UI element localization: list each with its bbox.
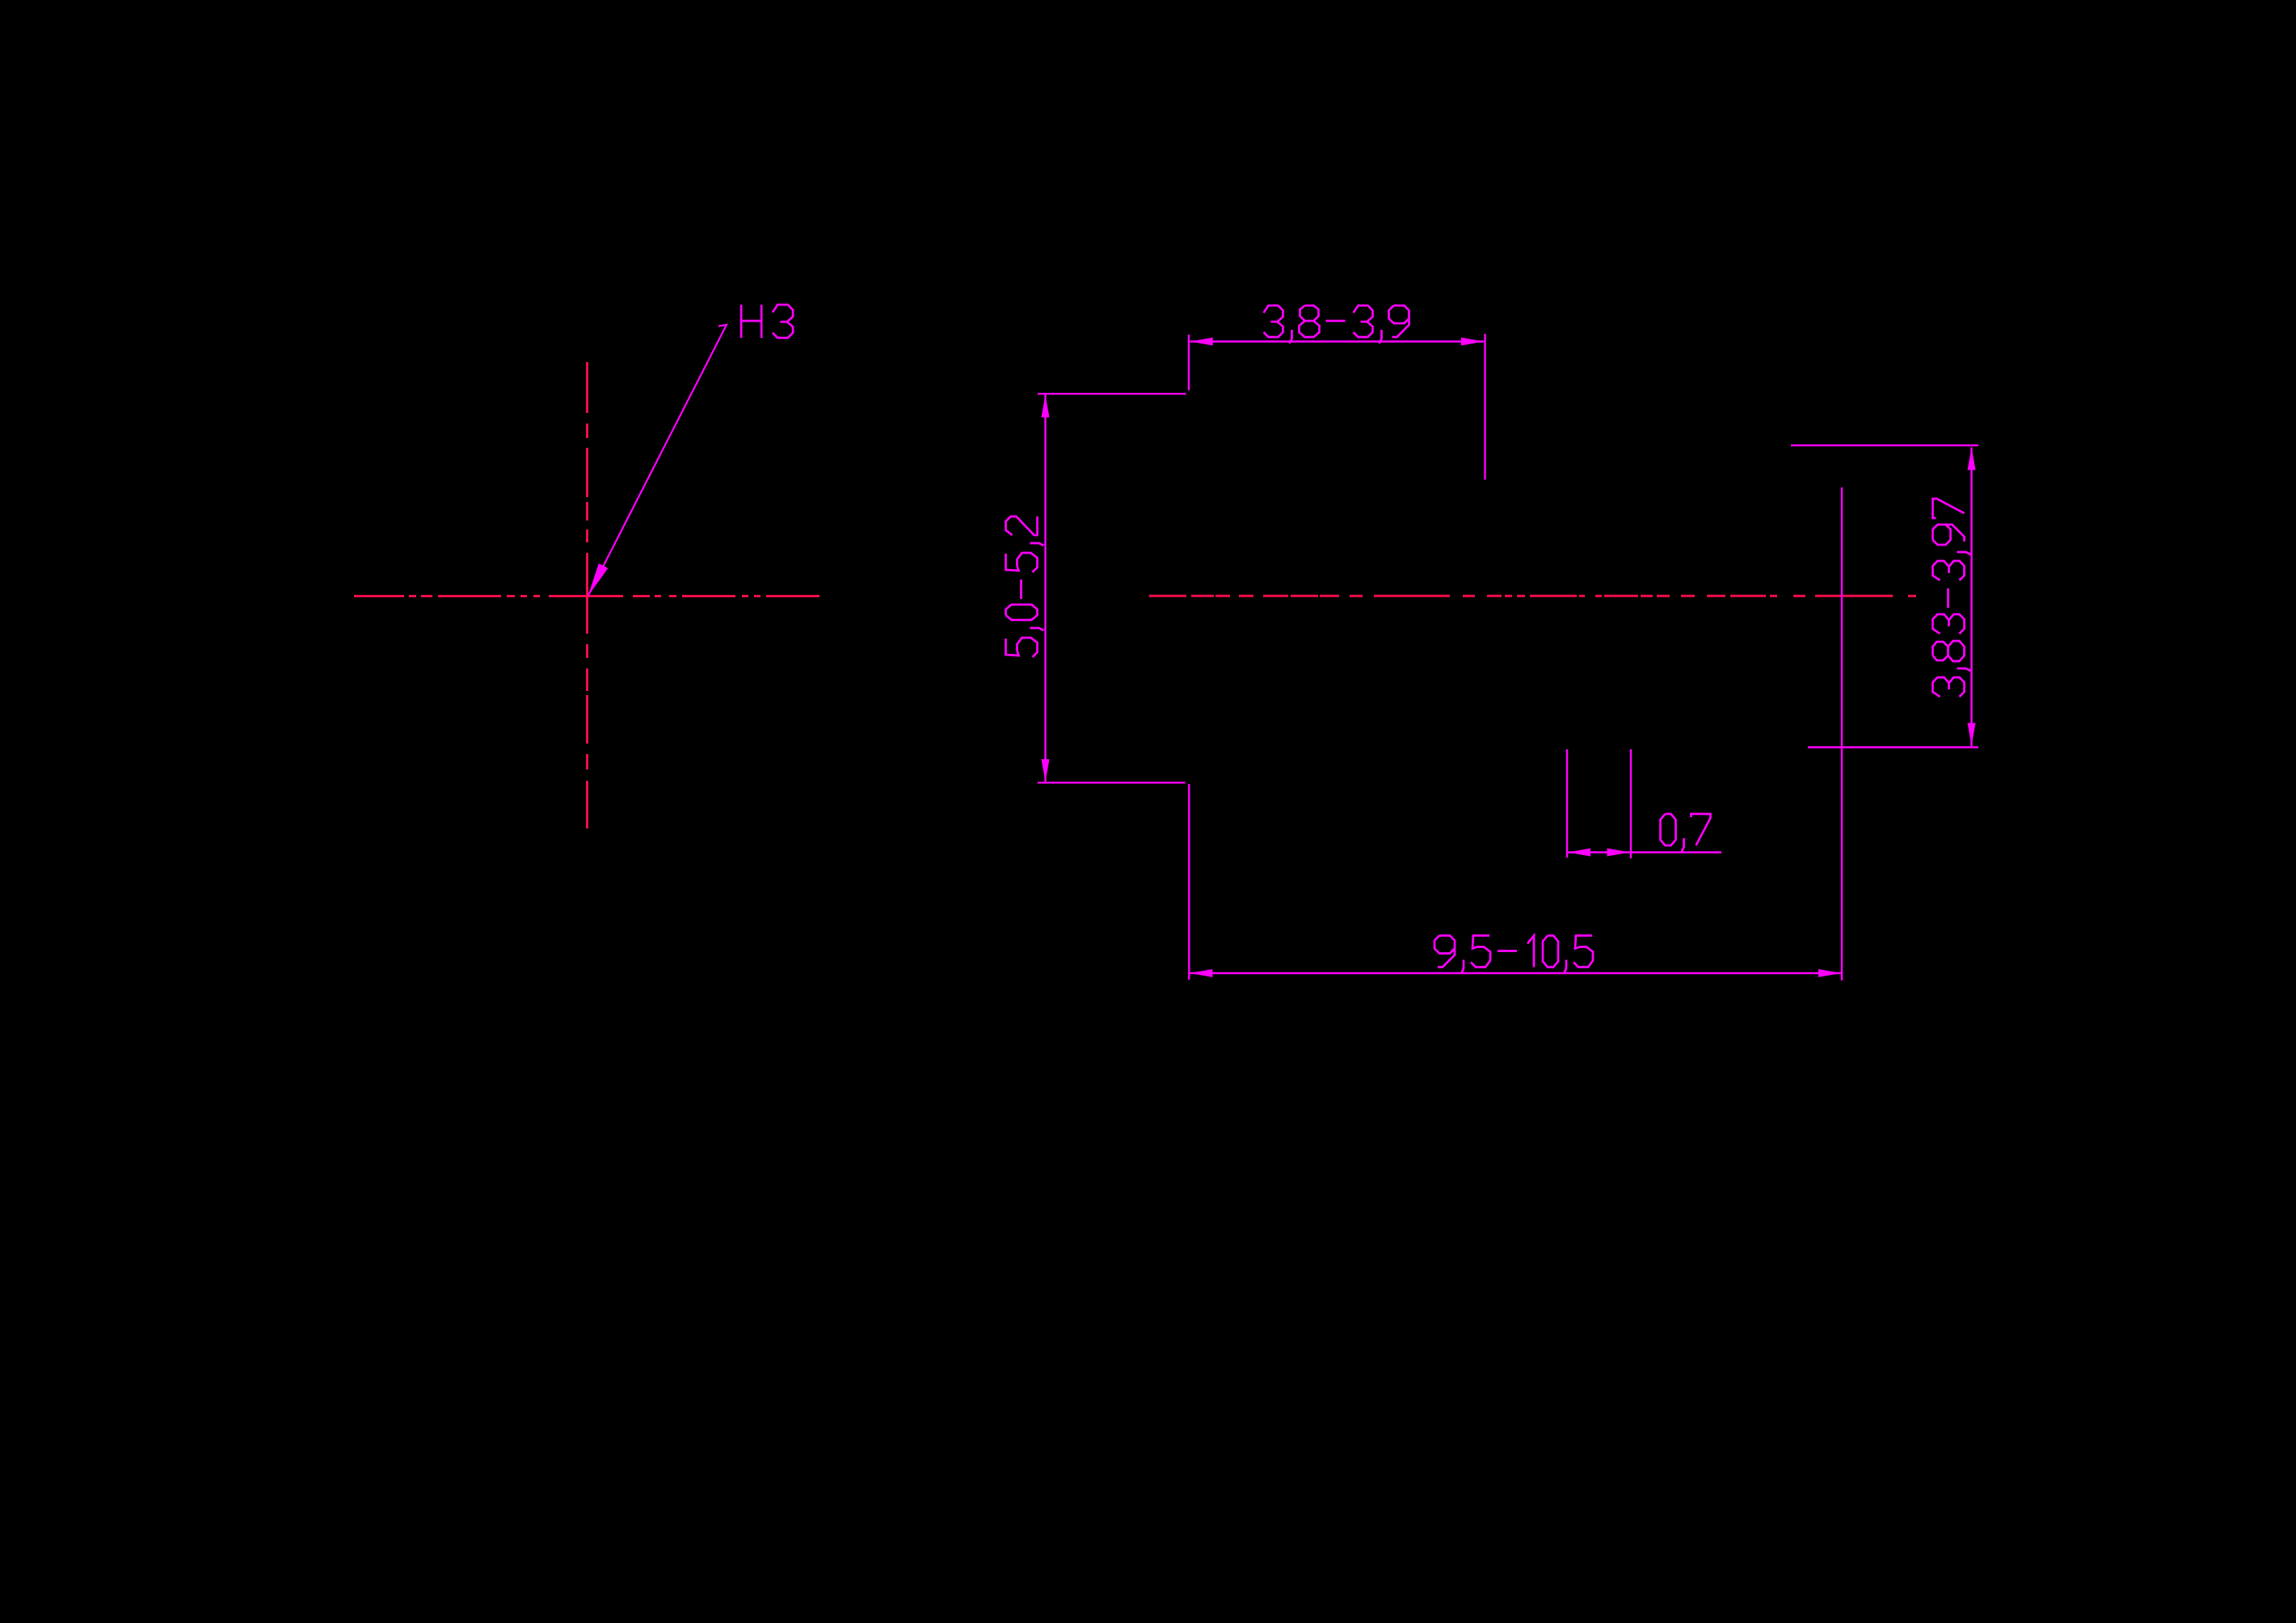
dimension text 9,5-10,5 bbox=[1434, 936, 1593, 974]
dimension 3.8-3.9: right extension line bbox=[1484, 334, 1485, 480]
dimension 9.5-10.5: right extension line bbox=[1841, 487, 1843, 980]
dimension 5.0-5.2: top extension line bbox=[1038, 393, 1186, 394]
dimension 0.7: right extension line bbox=[1630, 749, 1632, 858]
dimension 5.0-5.2: dimension line with arrowheads bbox=[1042, 394, 1050, 782]
dimension 3.83-3.97: top extension line bbox=[1791, 445, 1978, 446]
dimension 3.83-3.97: bottom extension line bbox=[1808, 746, 1978, 748]
label H3 bbox=[741, 305, 793, 338]
dimension text 3,83-3,97 (rotated) bbox=[1933, 499, 1971, 697]
dimension 9.5-10.5: left extension line bbox=[1188, 784, 1190, 980]
leader line to hole H3 bbox=[588, 325, 727, 597]
dimension text 3,8-3,9 bbox=[1264, 306, 1409, 344]
dimension text 5,0-5,2 (rotated) bbox=[1006, 516, 1044, 657]
dimension 3.8-3.9: left extension line bbox=[1188, 335, 1190, 390]
centerline: right view horizontal axis (red dash-dot) bbox=[1149, 595, 1916, 597]
dimension text 0,7 bbox=[1661, 814, 1711, 852]
dimension 9.5-10.5: dimension line with arrowheads bbox=[1190, 969, 1841, 977]
dimension 5.0-5.2: bottom extension line bbox=[1038, 782, 1186, 783]
dimension 3.8-3.9: dimension line with arrowheads bbox=[1190, 338, 1484, 346]
dimension 0.7: left extension line bbox=[1566, 749, 1568, 858]
dimension 3.83-3.97: dimension line with arrowheads bbox=[1968, 448, 1976, 747]
centerline: left view vertical axis (red dashed) bbox=[586, 362, 588, 828]
dimension 0.7: dimension line, arrowheads and tail bbox=[1568, 849, 1721, 857]
centerline: left view horizontal axis (red dash-dot) bbox=[354, 595, 819, 597]
